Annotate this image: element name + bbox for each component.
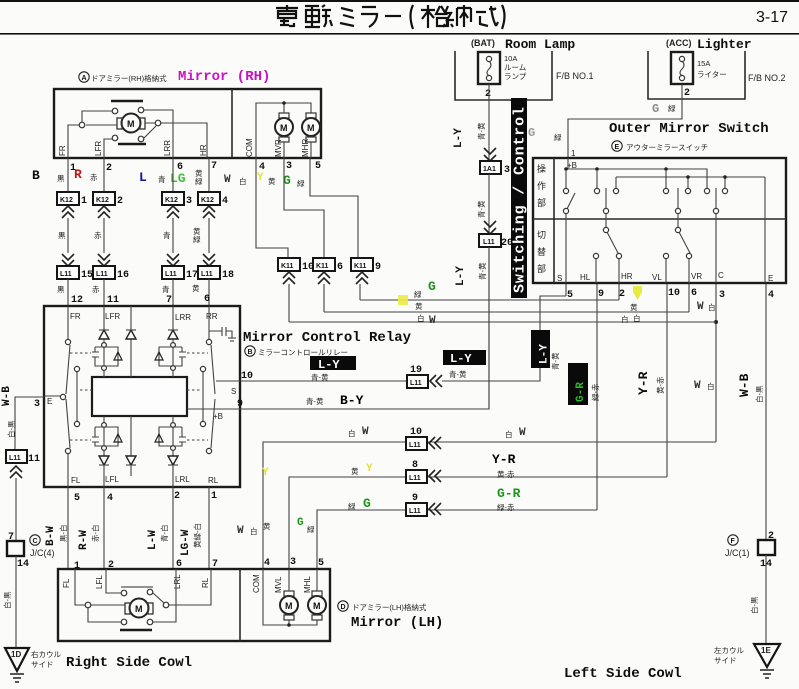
label E circle <box>612 141 622 151</box>
svg-text:RR: RR <box>206 312 218 321</box>
svg-text:Y: Y <box>366 463 373 475</box>
svg-text:RL: RL <box>201 577 210 588</box>
svg-text:FR: FR <box>58 145 67 156</box>
row MVL: switch VL to L11-8 to LH pin3 <box>289 477 667 569</box>
svg-text:B: B <box>32 168 40 183</box>
svg-text:M: M <box>307 123 315 133</box>
svg-text:A: A <box>82 75 87 82</box>
+B stub <box>567 158 569 169</box>
svg-text:青-黄: 青-黄 <box>550 352 560 370</box>
svg-text:赤: 赤 <box>94 231 102 240</box>
svg-text:LFR: LFR <box>105 312 120 321</box>
svg-text:黄-赤: 黄-赤 <box>655 376 665 394</box>
svg-text:2: 2 <box>485 89 491 100</box>
svg-text:Lighter: Lighter <box>697 37 752 52</box>
svg-text:3: 3 <box>34 399 40 410</box>
kana ミ <box>340 8 354 26</box>
label D circle <box>338 601 348 611</box>
svg-text:黒: 黒 <box>58 231 66 240</box>
svg-text:RL: RL <box>208 476 219 485</box>
svg-text:COM: COM <box>252 574 261 593</box>
relay diode LFR <box>103 306 105 330</box>
svg-text:K11: K11 <box>354 263 367 270</box>
relay transistor cluster LFR top <box>102 343 107 348</box>
connector K12 pin 2 <box>93 192 115 205</box>
svg-text:W: W <box>694 380 701 392</box>
svg-text:FL: FL <box>62 578 71 588</box>
black label L-Y box 2 <box>443 350 486 365</box>
svg-text:青: 青 <box>158 174 166 184</box>
svg-text:M: M <box>135 604 143 614</box>
svg-text:黒: 黒 <box>57 174 65 183</box>
svg-text:5: 5 <box>315 161 321 172</box>
svg-text:4: 4 <box>768 290 774 301</box>
svg-text:7: 7 <box>211 161 217 172</box>
svg-text:白: 白 <box>239 176 247 186</box>
svg-text:Y-R: Y-R <box>636 371 651 395</box>
lower blade left <box>603 227 608 232</box>
svg-text:HR: HR <box>199 144 208 156</box>
wires K12 to L11 <box>68 218 209 253</box>
switch box outline <box>533 158 786 283</box>
relay diode LRL bottom <box>172 450 174 487</box>
connector K12 pin 3 <box>162 192 184 205</box>
svg-text:L11: L11 <box>409 442 421 449</box>
svg-text:E: E <box>47 397 52 406</box>
svg-text:L11: L11 <box>483 239 495 246</box>
svg-text:G: G <box>528 126 535 140</box>
svg-text:ライター: ライター <box>697 70 727 79</box>
svg-text:K12: K12 <box>60 197 73 204</box>
kanji 格 <box>421 5 447 28</box>
svg-text:1A1: 1A1 <box>483 166 496 173</box>
svg-text:7: 7 <box>8 532 14 543</box>
svg-text:1D: 1D <box>11 650 21 659</box>
svg-text:10: 10 <box>668 288 680 299</box>
svg-text:ドアミラー(RH)格納式: ドアミラー(RH)格納式 <box>91 73 167 83</box>
svg-text:作: 作 <box>537 180 546 191</box>
motor M mirror RH <box>122 114 141 133</box>
svg-text:M: M <box>127 119 135 129</box>
svg-text:5: 5 <box>318 558 324 569</box>
svg-text:黄: 黄 <box>630 302 638 312</box>
connector L11 pin 11 <box>6 450 27 463</box>
svg-text:Y-R: Y-R <box>492 452 516 467</box>
svg-text:11: 11 <box>107 295 119 306</box>
svg-text:赤: 赤 <box>92 285 100 294</box>
svg-text:W-B: W-B <box>737 373 752 397</box>
svg-text:7: 7 <box>166 295 172 306</box>
svg-text:K12: K12 <box>165 197 178 204</box>
fuse holder bracket F/B NO.1 <box>455 51 552 100</box>
wire LRR inside <box>144 110 173 158</box>
linkage contacts bottom <box>112 135 118 141</box>
wire MHR to K11-9 <box>310 158 358 258</box>
lower blade right <box>675 227 680 232</box>
svg-text:R-W: R-W <box>78 530 90 550</box>
svg-text:3: 3 <box>504 165 510 176</box>
svg-text:B-Y: B-Y <box>340 393 364 408</box>
relay arm RR <box>211 345 215 448</box>
vertical black bar L-Y on S wire <box>531 330 550 368</box>
svg-text:ルーム: ルーム <box>504 63 526 72</box>
connector K11 pin 9 <box>351 258 373 271</box>
svg-text:LFR: LFR <box>94 141 103 156</box>
wire LFL inside LH <box>106 569 164 603</box>
svg-text:操: 操 <box>537 163 546 174</box>
svg-text:LRR: LRR <box>175 313 191 322</box>
svg-text:11: 11 <box>28 454 40 465</box>
label B circle <box>245 346 255 356</box>
upper contact stubs <box>566 171 666 188</box>
wire G lighter to switch +B <box>568 84 682 158</box>
svg-text:B: B <box>248 349 253 356</box>
svg-text:Right Side Cowl: Right Side Cowl <box>66 655 192 671</box>
relay cluster LRL bottom <box>171 423 176 428</box>
svg-text:FR: FR <box>70 312 81 321</box>
svg-text:6: 6 <box>337 262 343 273</box>
switch horizontal divider <box>533 218 786 220</box>
motor MHR <box>302 118 320 136</box>
svg-text:緑: 緑 <box>414 289 422 299</box>
blade C closed <box>715 188 717 209</box>
svg-text:6: 6 <box>691 288 697 299</box>
motor MVR <box>275 118 293 136</box>
svg-text:J/C(4): J/C(4) <box>30 548 55 558</box>
svg-text:2: 2 <box>768 531 774 542</box>
black box G-R vertical <box>568 363 588 405</box>
wires box A pins down to K12 <box>68 158 209 192</box>
box D divider <box>239 569 241 641</box>
svg-text:白-黒: 白-黒 <box>749 596 759 614</box>
wire HR inside <box>145 123 207 158</box>
motor heads LH <box>289 569 317 591</box>
wire RL inside LH <box>169 569 211 605</box>
relay armature right <box>200 366 205 371</box>
svg-text:3: 3 <box>186 196 192 207</box>
wire LRL inside LH <box>153 569 176 622</box>
wire relay pin9 +B row B-Y <box>240 247 489 409</box>
wires L11 to relay top <box>68 279 209 306</box>
paren ( <box>411 5 414 29</box>
blade VL closed <box>677 188 679 209</box>
svg-text:(BAT): (BAT) <box>471 38 495 48</box>
svg-text:C: C <box>718 271 724 280</box>
row VR white: K11-6 to switch VR <box>324 311 689 313</box>
connector K12 pin 4 <box>198 192 220 205</box>
svg-text:4: 4 <box>107 493 113 504</box>
svg-text:R: R <box>74 167 82 182</box>
svg-text:5: 5 <box>74 493 80 504</box>
ground 1D right side cowl <box>5 648 29 671</box>
svg-text:2: 2 <box>106 163 112 174</box>
svg-text:10: 10 <box>410 427 422 438</box>
svg-text:G-R: G-R <box>575 382 587 402</box>
wire VR down <box>688 284 690 312</box>
dashed couplers left <box>70 353 92 440</box>
motor MVL <box>280 596 298 614</box>
svg-text:白: 白 <box>708 302 716 312</box>
fuse holder bracket F/B NO.2 <box>648 51 745 99</box>
svg-text:9: 9 <box>598 289 604 300</box>
svg-text:白: 白 <box>250 526 258 536</box>
svg-text:W: W <box>429 315 436 327</box>
svg-text:2: 2 <box>619 289 625 300</box>
wire VL to lower blade <box>677 213 679 227</box>
wire J/C(1) to ground <box>765 555 767 644</box>
paren ) <box>502 5 505 29</box>
relay FL output wire <box>67 454 69 487</box>
chevrons L11-19 <box>430 375 442 387</box>
wire L11-19 to switch S <box>442 284 566 381</box>
svg-text:(ACC): (ACC) <box>666 38 692 48</box>
svg-text:青: 青 <box>163 230 171 240</box>
svg-text:1: 1 <box>571 149 576 158</box>
svg-text:赤-白: 赤-白 <box>90 525 100 543</box>
svg-text:LRL: LRL <box>175 475 190 484</box>
svg-text:S: S <box>231 387 236 396</box>
svg-text:緑: 緑 <box>297 178 305 188</box>
svg-text:M: M <box>285 601 293 611</box>
svg-text:D: D <box>341 604 346 611</box>
svg-text:17: 17 <box>186 270 198 281</box>
svg-text:15: 15 <box>81 270 93 281</box>
svg-text:W: W <box>519 427 526 439</box>
wire to L11-20 <box>488 174 490 234</box>
svg-text:S: S <box>557 274 562 283</box>
svg-text:L11: L11 <box>60 271 72 278</box>
kana ラ <box>361 7 377 27</box>
relay E arm FL <box>66 399 70 448</box>
kanji 納 <box>443 5 471 27</box>
svg-text:黄: 黄 <box>263 521 271 531</box>
svg-text:Mirror Control Relay: Mirror Control Relay <box>243 330 412 346</box>
connector J/C(4) <box>7 541 24 556</box>
svg-text:G-R: G-R <box>497 486 521 501</box>
wire MVR to K11-6 <box>284 158 324 258</box>
svg-text:右カウル: 右カウル <box>31 649 61 659</box>
svg-text:LG: LG <box>170 171 186 186</box>
svg-text:MHL: MHL <box>303 576 312 593</box>
svg-text:L-Y: L-Y <box>453 128 465 148</box>
COM bus inside <box>256 103 311 158</box>
svg-text:Y: Y <box>262 467 269 479</box>
svg-text:白: 白 <box>417 313 425 323</box>
connector 1A1 pin 3 <box>480 161 501 174</box>
retract linkage top bar <box>111 100 143 103</box>
svg-text:黄: 黄 <box>415 301 423 311</box>
svg-text:切: 切 <box>537 230 546 240</box>
linkage contacts top <box>112 108 118 114</box>
svg-text:LRR: LRR <box>163 140 172 156</box>
svg-text:L11: L11 <box>201 271 213 278</box>
svg-text:G: G <box>428 279 436 294</box>
svg-text:15A: 15A <box>697 59 710 68</box>
svg-text:W: W <box>224 174 231 186</box>
svg-text:黒-白: 黒-白 <box>58 525 68 543</box>
svg-text:E: E <box>768 274 773 283</box>
svg-text:L11: L11 <box>409 508 421 515</box>
svg-text:2: 2 <box>174 491 180 502</box>
box B outline <box>44 306 240 487</box>
svg-text:青-黄: 青-黄 <box>477 262 487 280</box>
svg-text:青-黄: 青-黄 <box>476 122 486 140</box>
wire RL LG-W <box>208 487 210 569</box>
box D outline <box>58 569 330 641</box>
svg-text:黄: 黄 <box>351 466 359 476</box>
svg-text:部: 部 <box>537 263 546 274</box>
svg-text:9: 9 <box>375 262 381 273</box>
wire FL B-W <box>67 487 69 569</box>
wire COM to K11-10 <box>256 158 288 258</box>
relay RR input wire <box>208 306 210 339</box>
chevrons into L11-20 <box>484 221 496 234</box>
svg-text:L-W: L-W <box>147 530 159 550</box>
wire L11-11 to J/C(4) <box>15 478 17 541</box>
relay S wire inside <box>216 380 240 382</box>
label F circle J/C(1) <box>728 535 738 545</box>
svg-text:K11: K11 <box>316 263 329 270</box>
svg-text:Left Side Cowl: Left Side Cowl <box>564 666 682 682</box>
svg-text:COM: COM <box>245 138 254 157</box>
wire relay pin10 S row <box>240 380 407 382</box>
relay mid diode bottom <box>130 416 132 476</box>
wire LRL L-W <box>172 487 174 569</box>
dashed couplers right <box>187 353 208 440</box>
row COM: switch C to L11-10 to LH pin4 <box>263 442 716 569</box>
svg-text:M: M <box>313 601 321 611</box>
fuse 15A lighter <box>671 52 693 84</box>
svg-text:1E: 1E <box>761 646 771 655</box>
connector L11 pin 18 <box>198 266 220 279</box>
connector L11 pin 10 row <box>406 437 427 450</box>
motor M mirror LH <box>130 599 149 618</box>
kanji 式 <box>476 6 498 26</box>
svg-text:LFL: LFL <box>105 475 119 484</box>
svg-text:黄: 黄 <box>268 176 276 186</box>
svg-text:HR: HR <box>621 272 633 281</box>
svg-text:3: 3 <box>286 161 292 172</box>
connector K11 pin 10 <box>278 258 300 271</box>
COM bus inside LH <box>263 569 317 625</box>
svg-text:L-Y: L-Y <box>318 358 340 372</box>
svg-text:白-黒: 白-黒 <box>2 591 12 609</box>
wire E down to J/C(1) <box>765 284 767 540</box>
svg-text:アウターミラースイッチ: アウターミラースイッチ <box>626 143 708 152</box>
label C circle J/C(4) <box>30 535 40 545</box>
kana ー <box>385 15 401 17</box>
row MHL: switch HL to L11-9 to LH pin5 <box>317 510 597 569</box>
svg-text:L-Y: L-Y <box>455 266 467 286</box>
svg-text:G: G <box>652 102 659 116</box>
wire K11-9 down to G row <box>359 284 361 300</box>
chevrons below K12 row <box>62 206 74 218</box>
svg-text:W: W <box>362 426 369 438</box>
wire LFL R-W <box>103 487 105 569</box>
svg-text:ミラーコントロールリレー: ミラーコントロールリレー <box>258 348 348 357</box>
svg-text:部: 部 <box>537 197 546 208</box>
svg-text:16: 16 <box>117 270 129 281</box>
svg-text:K12: K12 <box>201 197 214 204</box>
wire K11-10 down to white row <box>288 284 290 322</box>
bus1 <box>566 169 707 189</box>
connector L11 pin 20 <box>479 234 501 247</box>
svg-text:L11: L11 <box>9 455 21 462</box>
svg-text:6: 6 <box>204 294 210 305</box>
svg-text:L11: L11 <box>165 271 177 278</box>
wire L11-20 down to B-Y row <box>488 247 490 409</box>
chevrons into L11 row <box>62 254 74 266</box>
svg-text:Room Lamp: Room Lamp <box>505 37 575 52</box>
svg-text:白: 白 <box>621 314 629 324</box>
svg-text:青-黄: 青-黄 <box>306 396 324 406</box>
svg-text:9: 9 <box>412 493 418 504</box>
svg-text:緑: 緑 <box>554 132 562 142</box>
svg-text:2: 2 <box>684 88 690 99</box>
svg-text:白: 白 <box>505 429 513 439</box>
svg-text:黒: 黒 <box>57 285 65 294</box>
svg-text:LG-W: LG-W <box>180 529 192 556</box>
motor tails <box>284 142 311 158</box>
relay cluster LRR top <box>171 343 176 348</box>
wire FR inside <box>68 111 117 158</box>
svg-text:J/C(1): J/C(1) <box>725 548 750 558</box>
svg-text:青-黄: 青-黄 <box>449 369 467 379</box>
wire L-Y room lamp down <box>488 84 490 161</box>
svg-text:3-17: 3-17 <box>756 9 788 26</box>
svg-text:白-黒: 白-黒 <box>6 420 16 438</box>
svg-text:W: W <box>697 301 704 313</box>
connector L11 pin 8 row <box>406 470 427 483</box>
svg-text:+B: +B <box>213 412 223 421</box>
svg-text:緑: 緑 <box>193 234 201 244</box>
svg-text:5: 5 <box>567 290 573 301</box>
svg-text:2: 2 <box>117 196 123 207</box>
svg-text:L-Y: L-Y <box>450 352 472 366</box>
svg-text:緑-赤: 緑-赤 <box>497 502 515 512</box>
svg-text:Mirror (LH): Mirror (LH) <box>351 615 443 631</box>
wire C down inside <box>715 213 717 283</box>
chevrons into 1A1 <box>484 148 496 161</box>
svg-text:F/B NO.2: F/B NO.2 <box>748 73 786 83</box>
connector L11 pin 15 <box>57 266 79 279</box>
ground 1E left side cowl <box>754 644 780 667</box>
wire HL to lower blade <box>605 213 607 227</box>
svg-text:L-Y: L-Y <box>539 344 551 364</box>
svg-text:白-黒: 白-黒 <box>754 385 764 403</box>
svg-text:MVL: MVL <box>274 576 283 593</box>
svg-text:E: E <box>615 144 620 151</box>
svg-text:L: L <box>139 170 147 185</box>
svg-text:10A: 10A <box>504 54 517 63</box>
blade HL closed <box>605 188 607 209</box>
motor MHL <box>308 596 326 614</box>
svg-text:LFL: LFL <box>95 575 104 589</box>
bus2 <box>616 177 765 189</box>
connector K12 pin 1 <box>57 192 79 205</box>
wire HR down to G row <box>618 284 620 300</box>
wire C down <box>715 284 717 442</box>
wire E inside <box>764 177 766 283</box>
svg-text:18: 18 <box>222 270 234 281</box>
svg-text:白: 白 <box>707 381 715 391</box>
linkage contacts LH bottom <box>121 619 127 625</box>
svg-text:緑: 緑 <box>195 176 203 186</box>
svg-text:Outer Mirror Switch: Outer Mirror Switch <box>609 121 769 137</box>
svg-text:L11: L11 <box>410 380 422 387</box>
relay FR input wire <box>67 306 69 339</box>
label A circle <box>79 72 89 82</box>
